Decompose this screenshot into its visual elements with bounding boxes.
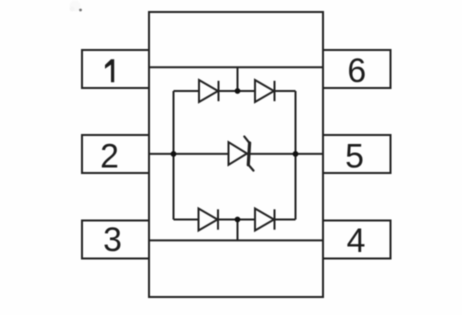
svg-text:6: 6	[347, 52, 366, 90]
svg-text:5: 5	[345, 138, 364, 176]
svg-text:3: 3	[103, 221, 122, 259]
svg-text:4: 4	[347, 222, 366, 260]
svg-text:2: 2	[100, 138, 119, 176]
